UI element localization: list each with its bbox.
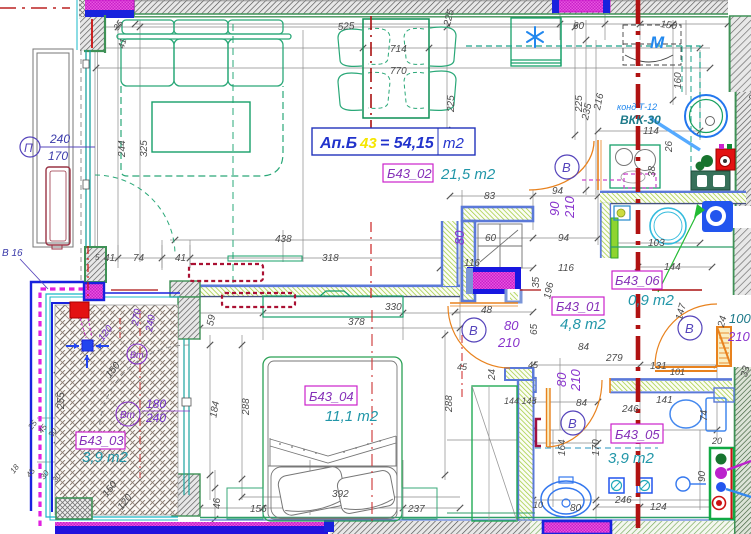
svg-text:М: М bbox=[650, 33, 665, 52]
svg-text:38: 38 bbox=[647, 165, 658, 177]
bottom-left pier bbox=[56, 498, 92, 519]
dashed leader from red block to drain bbox=[80, 318, 86, 338]
extra extension lines bbox=[94, 50, 96, 268]
magenta dashed outline bbox=[624, 174, 656, 188]
BT circles balcony bbox=[116, 344, 147, 426]
living room dashed beam line bbox=[232, 24, 234, 290]
svg-text:210: 210 bbox=[497, 335, 520, 350]
small box on left wall bbox=[614, 206, 630, 220]
П marker bbox=[20, 132, 95, 163]
svg-text:180: 180 bbox=[146, 397, 166, 411]
svg-text:20: 20 bbox=[711, 436, 722, 446]
svg-text:Б43_06: Б43_06 bbox=[615, 273, 660, 288]
stove red bbox=[716, 149, 735, 170]
shaft interior bbox=[478, 224, 522, 268]
bedroom dims bbox=[200, 312, 460, 314]
window mullion strip top bbox=[79, 0, 85, 19]
svg-text:60: 60 bbox=[573, 21, 585, 32]
riser box green bbox=[710, 448, 751, 519]
blue asterisk (hob symbol) bbox=[527, 27, 543, 47]
svg-text:770: 770 bbox=[390, 66, 407, 77]
svg-text:3,9 m2: 3,9 m2 bbox=[82, 449, 129, 466]
svg-text:116: 116 bbox=[464, 258, 480, 269]
svg-text:114: 114 bbox=[643, 126, 659, 137]
bedroom/bath wall vertical with blue edge bbox=[505, 368, 534, 525]
svg-text:0,9 m2: 0,9 m2 bbox=[628, 292, 675, 309]
chairs dashed tucked bbox=[368, 28, 424, 108]
svg-text:378: 378 bbox=[348, 317, 365, 328]
bath B43_01 door orange (swing down-right) bbox=[450, 302, 518, 304]
svg-text:225: 225 bbox=[446, 95, 457, 113]
svg-text:ВКК-30: ВКК-30 bbox=[620, 113, 661, 127]
svg-text:144: 144 bbox=[664, 262, 681, 273]
red axis x=88 top bbox=[91, 19, 93, 48]
red marks balcony bbox=[87, 246, 89, 300]
top wall left stub bbox=[519, 377, 536, 393]
svg-text:90: 90 bbox=[547, 201, 562, 216]
floor drain squares bbox=[609, 478, 652, 493]
svg-text:80: 80 bbox=[570, 503, 582, 514]
svg-text:83: 83 bbox=[484, 191, 496, 202]
svg-text:Б43_01: Б43_01 bbox=[556, 299, 601, 314]
kitchen bbox=[598, 130, 700, 132]
outer blue frame bbox=[31, 282, 84, 511]
B43_06 bottom line bbox=[611, 246, 733, 248]
dim line y=24 top (525/60/150) bbox=[135, 23, 728, 25]
svg-text:103: 103 bbox=[648, 238, 665, 249]
entrance door leaf orange bbox=[717, 327, 731, 366]
svg-text:Б43_02: Б43_02 bbox=[387, 166, 432, 181]
svg-text:90: 90 bbox=[697, 470, 708, 482]
svg-text:24: 24 bbox=[487, 368, 498, 381]
balcony glazing bbox=[184, 339, 189, 495]
lime door strip B43_06 bbox=[611, 218, 618, 258]
svg-text:325: 325 bbox=[139, 140, 150, 157]
right exterior wall top bbox=[729, 16, 751, 206]
svg-text:Б43_05: Б43_05 bbox=[615, 427, 660, 442]
bottom magenta strip + blue window band bbox=[55, 522, 328, 527]
svg-text:П: П bbox=[24, 141, 33, 155]
svg-text:170: 170 bbox=[591, 439, 602, 456]
svg-text:45: 45 bbox=[457, 362, 468, 372]
svg-text:100: 100 bbox=[729, 311, 751, 326]
radiator left bbox=[46, 167, 70, 245]
balcony glazing top rail bbox=[105, 292, 180, 294]
wm blue box bbox=[702, 201, 733, 232]
magenta insulation block top-mid bbox=[552, 0, 610, 13]
horizontal red dashdot top-left bbox=[0, 7, 70, 9]
svg-text:288: 288 bbox=[444, 395, 455, 413]
vertical x=447 (225) bbox=[446, 20, 448, 135]
y=240 (438) bbox=[170, 239, 460, 241]
svg-text:74: 74 bbox=[699, 409, 710, 421]
TV dashed dark red on wall bbox=[189, 264, 263, 281]
corridor-living divider wall vertical bbox=[442, 221, 458, 286]
svg-text:80: 80 bbox=[504, 318, 519, 333]
TV shelf green bbox=[228, 256, 302, 261]
nightstand left bbox=[227, 488, 263, 519]
door jamb pocket U bbox=[506, 289, 521, 302]
pillows bbox=[277, 465, 396, 516]
svg-text:41: 41 bbox=[104, 253, 115, 264]
balcony pier lower bbox=[172, 474, 200, 516]
svg-text:160: 160 bbox=[673, 72, 684, 89]
svg-text:279: 279 bbox=[605, 353, 623, 364]
svg-text:141: 141 bbox=[656, 395, 673, 406]
kitchen sink round bbox=[685, 95, 727, 137]
magenta dashed insulation line bbox=[40, 289, 84, 526]
washbasin bbox=[541, 481, 591, 517]
vertical x=673 (160) bbox=[672, 20, 674, 105]
dark green blobs left of stove bbox=[701, 155, 713, 167]
sofa bbox=[117, 20, 291, 86]
svg-text:318: 318 bbox=[322, 253, 339, 264]
chairs solid left bbox=[338, 27, 456, 110]
svg-text:74: 74 bbox=[133, 253, 145, 264]
red block bbox=[70, 302, 89, 318]
svg-text:Вт: Вт bbox=[120, 410, 135, 421]
horiz guide through sofa/table y=27 bbox=[95, 26, 560, 28]
svg-text:43: 43 bbox=[359, 135, 377, 152]
svg-text:246: 246 bbox=[614, 495, 632, 506]
bottom wall band green hatch bbox=[200, 518, 734, 534]
dim line y=68 (770) bbox=[95, 67, 710, 69]
B43_06 left wall bbox=[600, 203, 611, 258]
dresser green with bump bbox=[263, 296, 403, 317]
top wall right part bbox=[610, 378, 732, 393]
svg-text:65: 65 bbox=[529, 323, 540, 335]
parquet floor bbox=[55, 305, 178, 515]
ticks row y=257 small bbox=[94, 245, 96, 268]
room labels bbox=[383, 164, 496, 183]
bath door leaf + arc bbox=[546, 388, 550, 447]
green leader diagonal bbox=[658, 208, 700, 292]
bed bbox=[263, 357, 402, 521]
dining table bbox=[363, 19, 429, 118]
svg-text:438: 438 bbox=[275, 234, 292, 245]
svg-text:35: 35 bbox=[531, 276, 542, 288]
svg-text:21,5 m2: 21,5 m2 bbox=[440, 166, 496, 183]
svg-text:84: 84 bbox=[578, 342, 590, 353]
svg-text:131: 131 bbox=[650, 361, 667, 372]
purple dims bbox=[452, 196, 751, 392]
apartment main label bbox=[312, 128, 475, 155]
right exterior wall mid (beside B43_06) bbox=[733, 228, 751, 295]
svg-text:3,9 m2: 3,9 m2 bbox=[608, 450, 655, 467]
bottom magenta block bbox=[543, 521, 611, 534]
blue pipe diagonal bbox=[650, 118, 700, 150]
wall left end block bbox=[170, 281, 200, 297]
kitchen door orange (vertical jamb at x=598) bbox=[597, 140, 599, 190]
svg-text:В: В bbox=[469, 323, 478, 338]
svg-text:94: 94 bbox=[558, 233, 570, 244]
coffee table bbox=[152, 102, 250, 152]
sofa verticals x=118,140 bbox=[117, 20, 119, 262]
vertical x=575 (225) bbox=[574, 20, 576, 140]
wardrobe bbox=[472, 386, 517, 521]
balcony pier upper bbox=[178, 297, 200, 339]
drain symbol bbox=[82, 340, 93, 351]
svg-text:210: 210 bbox=[727, 329, 750, 344]
svg-text:Б43_03: Б43_03 bbox=[79, 433, 124, 448]
svg-text:330: 330 bbox=[385, 302, 402, 313]
magenta insulation block top-left bbox=[84, 0, 134, 18]
bedroom window sill line bbox=[447, 512, 535, 514]
cornflower bar left bbox=[466, 268, 473, 294]
svg-text:84: 84 bbox=[576, 398, 588, 409]
svg-text:Вт: Вт bbox=[130, 350, 144, 360]
svg-text:48: 48 bbox=[481, 305, 493, 316]
svg-text:5: 5 bbox=[95, 253, 100, 262]
svg-text:124: 124 bbox=[650, 502, 667, 513]
svg-text:164: 164 bbox=[557, 439, 568, 456]
svg-text:41: 41 bbox=[175, 253, 186, 264]
inner blue frame bbox=[52, 303, 84, 512]
cyan inner lines bbox=[46, 294, 178, 517]
svg-text:26: 26 bbox=[664, 140, 675, 153]
svg-text:101: 101 bbox=[670, 367, 685, 377]
svg-text:конд Т-12: конд Т-12 bbox=[617, 102, 657, 112]
magenta shaft block bbox=[467, 267, 521, 294]
svg-text:246: 246 bbox=[621, 404, 639, 415]
thin red axis x=371 bbox=[370, 16, 372, 130]
upper cabinets green bbox=[511, 18, 561, 66]
svg-text:714: 714 bbox=[390, 44, 407, 55]
glazing left (teal double line) bbox=[86, 50, 90, 247]
hob dark green with two white squares bbox=[691, 171, 730, 190]
teal dashed counter line bbox=[466, 46, 700, 140]
svg-text:240: 240 bbox=[145, 411, 166, 425]
svg-text:255: 255 bbox=[56, 392, 67, 410]
svg-text:525: 525 bbox=[337, 21, 355, 33]
svg-text:В 16: В 16 bbox=[2, 248, 23, 259]
svg-text:210: 210 bbox=[562, 196, 577, 219]
svg-text:288: 288 bbox=[241, 398, 252, 416]
svg-text:В: В bbox=[568, 416, 577, 431]
svg-text:46: 46 bbox=[212, 497, 223, 509]
TV2 dashed dark red bbox=[222, 293, 295, 307]
faucet symbol right bbox=[676, 477, 690, 491]
svg-text:45: 45 bbox=[528, 360, 539, 370]
svg-text:210: 210 bbox=[568, 369, 583, 392]
B circles bbox=[462, 155, 702, 435]
svg-text:144 145: 144 145 bbox=[504, 396, 538, 406]
washing machine circle bbox=[650, 208, 686, 244]
svg-text:60: 60 bbox=[485, 233, 497, 244]
towel bracket maroon bbox=[536, 419, 541, 446]
svg-text:80: 80 bbox=[452, 230, 467, 245]
svg-text:Ап.Б: Ап.Б bbox=[319, 135, 357, 152]
verticals x=586,596 (235/216) bbox=[585, 20, 587, 195]
dim line y=48 (714) bbox=[95, 47, 710, 49]
window pier top-left hatch bbox=[80, 17, 104, 51]
bath right wall (to riser) bbox=[714, 388, 734, 402]
svg-text:В: В bbox=[562, 160, 571, 175]
y=258 (41/318) bbox=[95, 257, 460, 259]
svg-text:170: 170 bbox=[48, 149, 68, 163]
svg-text:В: В bbox=[685, 321, 694, 336]
svg-text:392: 392 bbox=[332, 489, 349, 500]
wall hatch top bbox=[104, 0, 728, 17]
wall below window to balcony bbox=[85, 247, 106, 282]
svg-text:11,1 m2: 11,1 m2 bbox=[325, 408, 379, 425]
svg-text:= 54,15: = 54,15 bbox=[380, 135, 435, 152]
svg-text:80: 80 bbox=[554, 372, 569, 387]
svg-text:240: 240 bbox=[49, 132, 70, 146]
corner counter lines bbox=[690, 46, 692, 190]
headboard dots bbox=[279, 440, 381, 454]
right exterior wall bottom bbox=[734, 367, 751, 534]
svg-text:237: 237 bbox=[407, 504, 425, 515]
red dim line above door bbox=[652, 289, 702, 291]
lower cabinet green with bowls bbox=[610, 145, 660, 188]
dashed upper cabinets right bbox=[623, 25, 681, 65]
nightstand right bbox=[402, 488, 437, 519]
svg-text:4,8 m2: 4,8 m2 bbox=[560, 316, 607, 333]
svg-text:Б43_04: Б43_04 bbox=[309, 389, 354, 404]
svg-text:94: 94 bbox=[552, 186, 564, 197]
toilet bbox=[670, 398, 726, 431]
svg-text:156: 156 bbox=[250, 504, 267, 515]
svg-text:10: 10 bbox=[533, 500, 543, 510]
top magenta block bbox=[84, 283, 104, 300]
sofa chaise dashed bbox=[121, 86, 283, 176]
main thick red axis x=638 bbox=[636, 0, 641, 534]
svg-text:m2: m2 bbox=[443, 135, 464, 152]
svg-text:116: 116 bbox=[558, 263, 574, 274]
corridor/bath region bbox=[450, 195, 598, 197]
svg-text:244: 244 bbox=[117, 140, 128, 158]
